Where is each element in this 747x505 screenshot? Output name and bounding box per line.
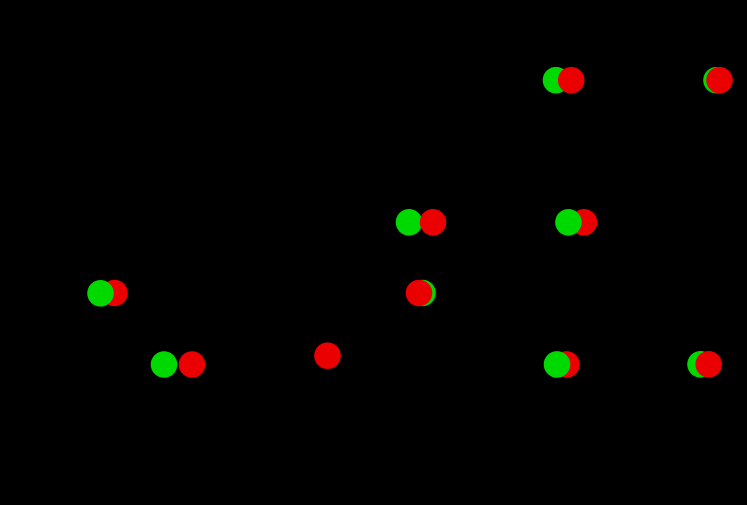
- node D: golden marker (green): [555, 209, 582, 236]
- node H: measured marker (red): [314, 342, 341, 369]
- node F: measured marker (red): [406, 280, 433, 307]
- node G: golden marker (green): [151, 351, 178, 378]
- node G: measured marker (red): [179, 351, 206, 378]
- node I: measured marker (red): [553, 351, 580, 378]
- node B: measured marker (red): [706, 67, 733, 94]
- node F: golden marker (green): [409, 280, 436, 307]
- node C: golden marker (green): [396, 209, 423, 236]
- node D: measured marker (red): [571, 209, 598, 236]
- node E: golden marker (green): [87, 280, 114, 307]
- node J: golden marker (green): [687, 351, 714, 378]
- node B: golden marker (green): [703, 67, 730, 94]
- node J: measured marker (red): [695, 351, 722, 378]
- node C: measured marker (red): [420, 209, 447, 236]
- node A: measured marker (red): [558, 67, 585, 94]
- node E: measured marker (red): [101, 280, 128, 307]
- node A: golden marker (green): [543, 67, 570, 94]
- node I: golden marker (green): [544, 351, 571, 378]
